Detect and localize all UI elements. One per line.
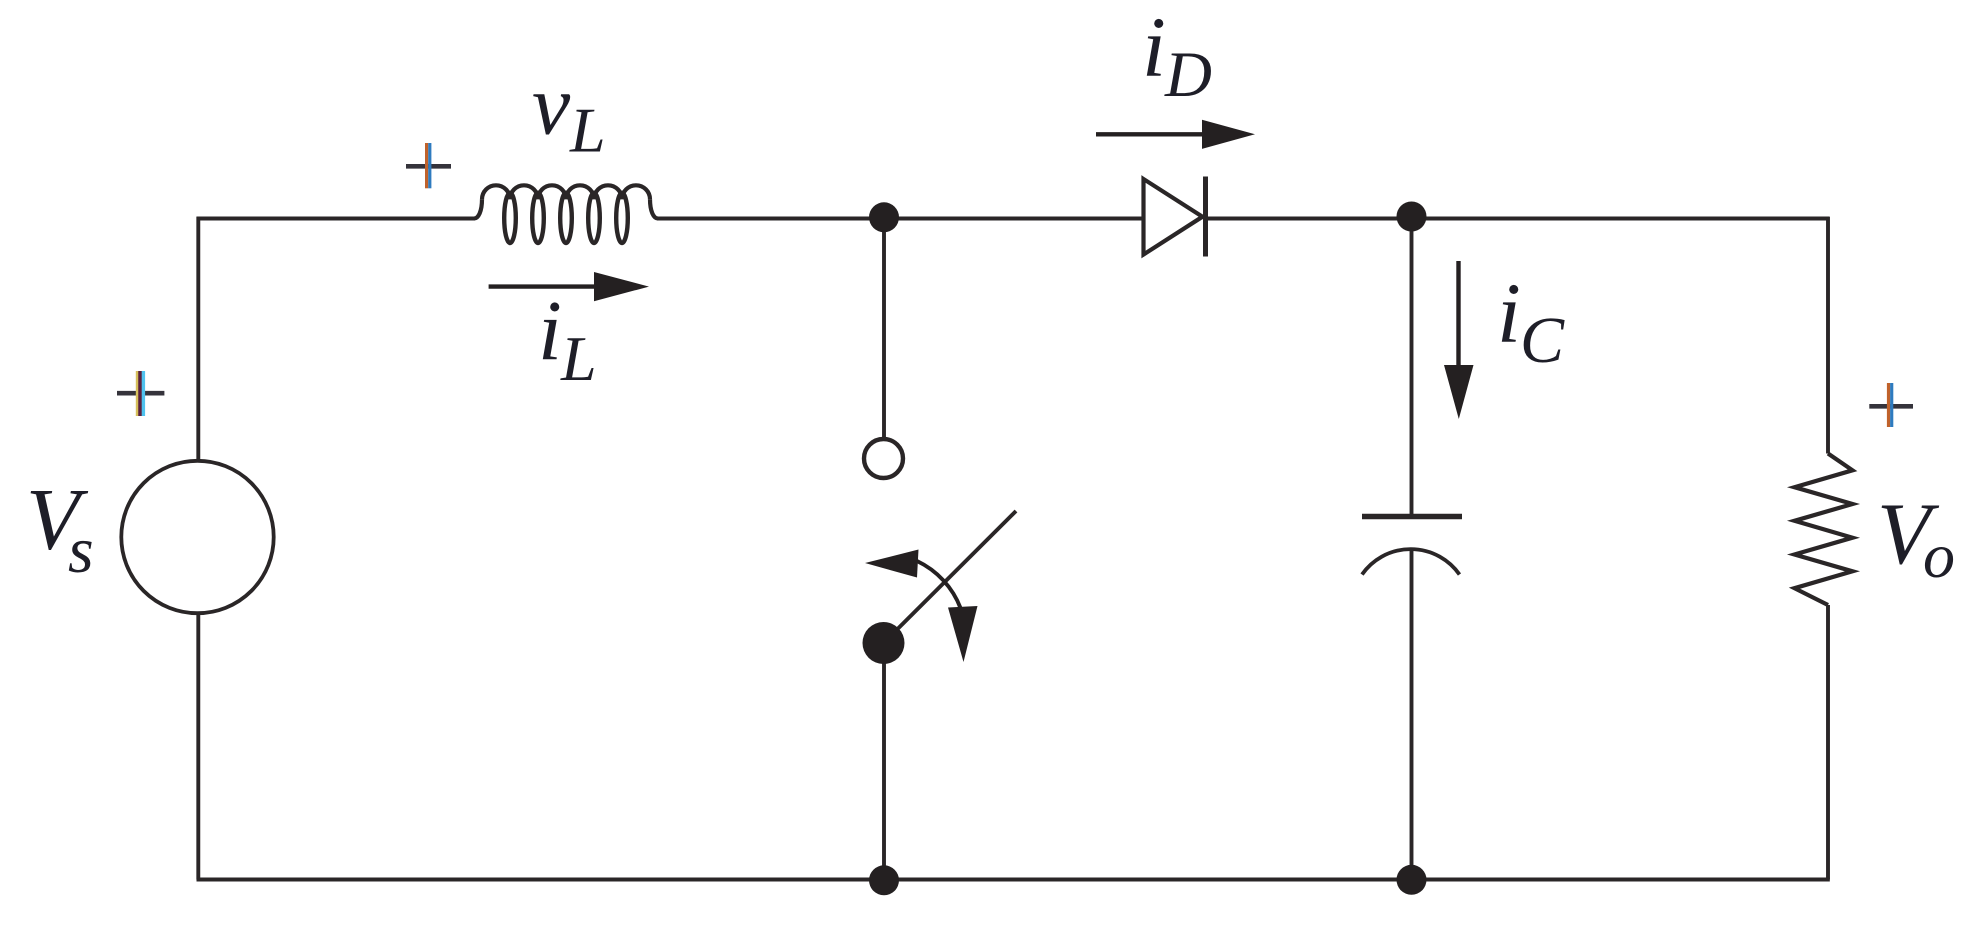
switch pivot dot xyxy=(863,622,905,664)
wire left lower (source bottom to corner) xyxy=(196,614,200,880)
svg-text:L: L xyxy=(560,323,597,394)
svg-text:L: L xyxy=(569,95,606,166)
switch blade xyxy=(884,511,1017,643)
switch arc arrowhead down xyxy=(948,606,978,662)
diode cathode bar xyxy=(1203,177,1208,257)
plus sign at inductor vL xyxy=(406,143,451,188)
svg-text:v: v xyxy=(532,57,571,153)
switch arc arrowhead left xyxy=(865,550,919,578)
wire top middle segment (inductor to diode) xyxy=(658,217,1143,221)
plus sign at Vo xyxy=(1869,383,1913,427)
voltage source Vs circle xyxy=(121,461,273,613)
capacitor C top plate xyxy=(1362,514,1462,519)
node junction dot top-left (inductor/switch) xyxy=(869,202,899,232)
arrow iL xyxy=(489,284,600,288)
inductor L coil xyxy=(474,185,658,243)
svg-text:o: o xyxy=(1923,520,1955,591)
wire switch branch upper (junction to switch circle) xyxy=(882,217,886,437)
svg-text:i: i xyxy=(538,283,562,379)
svg-text:C: C xyxy=(1520,304,1565,377)
wire bottom xyxy=(197,878,1830,882)
arrow iD xyxy=(1096,132,1208,136)
node junction dot bottom switch xyxy=(869,865,899,895)
svg-text:D: D xyxy=(1164,39,1212,111)
wire capacitor branch lower (arc to bottom) xyxy=(1410,549,1414,880)
wire left upper (corner to source top) xyxy=(196,217,200,460)
svg-text:s: s xyxy=(68,514,94,587)
arrow iC xyxy=(1456,261,1460,372)
svg-text:i: i xyxy=(1142,0,1166,95)
wire top left segment xyxy=(197,217,475,221)
wire top right segment (diode to corner) xyxy=(1206,217,1830,221)
plus sign at Vs xyxy=(117,371,164,416)
diode D triangle xyxy=(1144,179,1203,255)
node junction dot top-right (diode/capacitor) xyxy=(1397,202,1427,232)
wire capacitor branch upper (junction to plate) xyxy=(1410,217,1414,516)
capacitor C bottom curved plate xyxy=(1362,549,1460,574)
svg-text:i: i xyxy=(1497,265,1521,361)
switch action arc xyxy=(917,561,961,608)
wire right lower (resistor to corner) xyxy=(1826,605,1830,880)
wire right upper (corner to resistor) xyxy=(1826,217,1830,454)
wire switch branch lower (pivot to bottom junction) xyxy=(882,650,886,880)
resistor R zigzag xyxy=(1795,454,1853,606)
switch open contact circle xyxy=(864,439,903,478)
node junction dot bottom capacitor xyxy=(1397,865,1427,895)
